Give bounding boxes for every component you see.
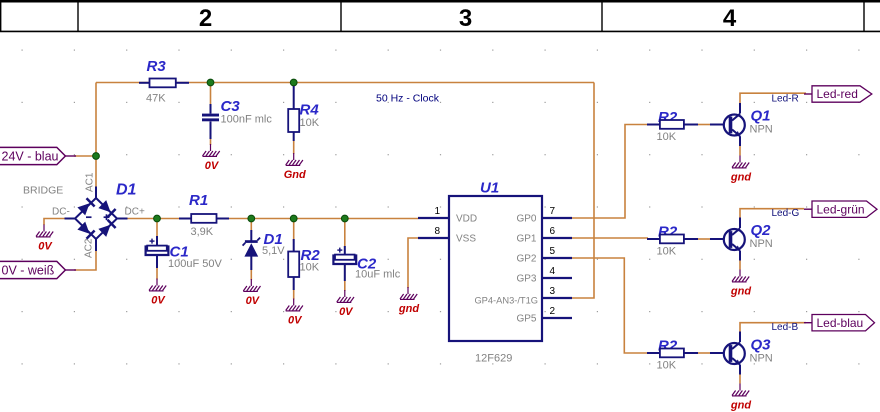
pin number 6 <box>550 226 556 237</box>
resistor R1 <box>179 192 229 223</box>
svg-text:0V: 0V <box>38 241 53 253</box>
ground Gnd at R4 <box>284 153 306 181</box>
connector flag Led-red <box>804 86 872 102</box>
pin name VSS <box>456 234 476 245</box>
svg-text:NPN: NPN <box>750 124 773 136</box>
svg-text:12F629: 12F629 <box>475 353 512 365</box>
ground 0V at C2 <box>337 290 354 318</box>
value NPN of Q2 <box>750 238 773 250</box>
pin number 5 <box>550 246 556 257</box>
value 10K of R2 base Q2 <box>657 246 677 258</box>
wire C3 to ground <box>210 138 212 145</box>
svg-text:2: 2 <box>199 5 212 32</box>
svg-text:GP1: GP1 <box>516 234 536 245</box>
svg-text:Gnd: Gnd <box>284 169 306 181</box>
zener diode D1 <box>243 230 283 270</box>
svg-text:5: 5 <box>550 246 556 257</box>
capacitor C2 <box>333 246 376 281</box>
label BRIDGE <box>23 185 63 197</box>
ground 0V at C3 <box>203 144 220 172</box>
svg-text:DC+: DC+ <box>125 207 145 218</box>
resistor R2 (shunt) <box>288 239 320 290</box>
svg-text:Q1: Q1 <box>751 108 771 125</box>
wire GP2 pin 5 to R2 base resistor of Q3 <box>572 258 648 353</box>
pin number 3 <box>550 286 556 297</box>
svg-text:2: 2 <box>550 306 556 317</box>
junction +V rail at C1 <box>154 215 161 222</box>
svg-text:4: 4 <box>550 266 556 277</box>
pin name GP2 <box>516 254 536 265</box>
svg-text:C3: C3 <box>221 98 241 115</box>
transistor Q1 <box>710 103 771 146</box>
wire R2 to Q3 base <box>698 352 713 354</box>
svg-text:Q2: Q2 <box>751 222 772 239</box>
svg-text:1: 1 <box>434 206 440 217</box>
svg-text:NPN: NPN <box>750 238 773 250</box>
ground gnd at Q3 emitter <box>730 384 751 412</box>
net label Led-G <box>772 208 800 219</box>
svg-text:VSS: VSS <box>456 234 476 245</box>
pin name GP1 <box>516 234 536 245</box>
label 50 Hz - Clock net name <box>376 93 440 105</box>
resistor R2 (base of Q1) <box>647 109 698 129</box>
net label Led-B <box>772 322 799 333</box>
connector flag 24V - blau <box>0 147 76 164</box>
net label Led-R <box>772 93 799 104</box>
junction clock net at R4 <box>290 79 297 86</box>
pin name VDD <box>456 214 477 225</box>
svg-text:R4: R4 <box>300 102 320 119</box>
svg-text:0V: 0V <box>205 160 220 172</box>
svg-text:GP4-AN3-/T1G: GP4-AN3-/T1G <box>474 296 538 306</box>
svg-text:8: 8 <box>434 226 440 237</box>
svg-text:GP0: GP0 <box>516 214 536 225</box>
svg-text:100nF mlc: 100nF mlc <box>221 114 273 126</box>
ground 0V at D1 zener <box>243 279 260 307</box>
ground gnd at Q1 emitter <box>730 156 751 184</box>
pin number 7 <box>550 206 556 217</box>
svg-text:0V: 0V <box>288 315 303 327</box>
svg-text:gnd: gnd <box>398 303 419 315</box>
svg-text:GP3: GP3 <box>516 274 536 285</box>
svg-text:Led-R: Led-R <box>772 93 799 104</box>
wire clock net vertical drop to U1 pin 3 <box>572 83 594 299</box>
wire D1 zener branch from +V rail <box>250 219 252 233</box>
pin name GP3 <box>516 274 536 285</box>
svg-text:3: 3 <box>459 5 472 32</box>
resistor R4 <box>288 86 319 141</box>
svg-text:U1: U1 <box>480 180 499 197</box>
svg-text:NPN: NPN <box>750 353 773 365</box>
pin number 1 <box>434 206 440 217</box>
junction 24V flag on AC1 riser <box>93 153 100 160</box>
svg-text:10K: 10K <box>300 262 320 274</box>
wire R2 to ground <box>293 275 295 300</box>
wire Q1 collector to Led-red flag <box>740 93 806 104</box>
svg-text:7: 7 <box>550 206 556 217</box>
resistor R2 (base of Q3) <box>647 338 698 358</box>
wire 24V flag stub to junction <box>74 155 96 157</box>
wire GP0 pin 7 to R2 base resistor of Q1 <box>572 125 648 219</box>
svg-text:Q3: Q3 <box>751 337 772 354</box>
ground 0V at R2 shunt <box>286 299 303 327</box>
ground gnd at U1 VSS <box>398 287 419 315</box>
wire Q1 emitter to gnd <box>739 146 741 156</box>
svg-text:AC2: AC2 <box>84 238 95 258</box>
pin name DC- <box>52 207 70 218</box>
value 100nF mlc of C3 <box>221 114 273 126</box>
wire Q2 emitter to gnd <box>739 261 741 270</box>
svg-text:3,9K: 3,9K <box>191 226 214 238</box>
svg-text:Led-grün: Led-grün <box>817 202 865 216</box>
wire Q3 emitter to gnd <box>739 375 741 384</box>
svg-text:GP2: GP2 <box>516 254 536 265</box>
svg-text:0V: 0V <box>151 295 166 307</box>
wire C2 branch from +V rail <box>344 219 346 248</box>
pin number 8 <box>434 226 440 237</box>
value 47K of R3 <box>146 93 166 105</box>
svg-text:Led-red: Led-red <box>817 87 858 101</box>
svg-text:D1: D1 <box>116 182 137 199</box>
pin name AC2 <box>84 238 95 258</box>
wire main +V rail from bridge DC+ to U1 pin 1 <box>127 218 418 220</box>
wire bridge AC2 to 0V flag <box>74 250 96 270</box>
ground 0V at C1 <box>149 279 166 307</box>
value NPN of Q3 <box>750 353 773 365</box>
resistor R3 <box>139 58 189 87</box>
value 12F629 of U1 <box>475 353 512 365</box>
transistor Q2 <box>710 218 771 261</box>
svg-text:3: 3 <box>550 286 556 297</box>
value 100uF 50V of C1 <box>168 258 222 270</box>
svg-text:gnd: gnd <box>730 172 751 184</box>
svg-text:24V - blau: 24V - blau <box>2 149 59 163</box>
resistor R2 (base of Q2) <box>647 224 698 244</box>
value 5,1V of D1 zener <box>262 245 285 257</box>
svg-text:gnd: gnd <box>730 400 751 412</box>
wire D1 zener to ground <box>250 257 252 280</box>
svg-text:Led-blau: Led-blau <box>817 316 864 330</box>
svg-text:0V - weiß: 0V - weiß <box>2 263 55 277</box>
svg-text:R1: R1 <box>189 192 208 209</box>
wire R2 to Q2 base <box>698 238 713 240</box>
pin name GP4-AN3-/T1G <box>474 296 538 306</box>
pin name GP0 <box>516 214 536 225</box>
wire R4 branch from clock junction <box>293 83 295 89</box>
svg-text:5,1V: 5,1V <box>262 245 285 257</box>
wire R4 to Gnd <box>293 132 295 154</box>
wire U1 VSS pin 8 to gnd <box>408 238 418 288</box>
connector flag Led-blau <box>804 315 875 331</box>
svg-text:DC-: DC- <box>52 207 70 218</box>
pin number 2 <box>550 306 556 317</box>
svg-text:100uF 50V: 100uF 50V <box>168 258 222 270</box>
svg-text:AC1: AC1 <box>85 172 96 192</box>
capacitor C1 <box>146 236 189 268</box>
svg-text:10K: 10K <box>657 131 677 143</box>
wire Q3 collector to Led-blau flag <box>740 323 806 333</box>
svg-text:0V: 0V <box>246 295 261 307</box>
capacitor C3 <box>202 98 240 139</box>
transistor Q3 <box>710 332 771 375</box>
connector flag 0V - weiss <box>0 261 76 278</box>
value 3,9K of R1 <box>191 226 214 238</box>
wire C2 to ground <box>344 264 346 291</box>
pin name GP5 <box>516 314 536 325</box>
svg-text:4: 4 <box>723 5 737 32</box>
wire C1 branch from +V rail <box>156 219 158 239</box>
wire R2 branch from +V rail <box>293 219 295 242</box>
value NPN of Q1 <box>750 124 773 136</box>
value 10K of R4 <box>300 117 320 129</box>
ground 0V at bridge DC- <box>36 225 53 253</box>
svg-text:10uF mlc: 10uF mlc <box>355 269 401 281</box>
wire 24V rail vertical from clock corner to bridge AC1 <box>95 83 97 188</box>
svg-text:VDD: VDD <box>456 214 477 225</box>
svg-text:BRIDGE: BRIDGE <box>23 185 63 197</box>
bridge rectifier D1 <box>65 182 137 252</box>
svg-text:0V: 0V <box>339 306 354 318</box>
junction +V rail at D1 zener <box>248 215 255 222</box>
wire bridge DC- to ground <box>44 219 65 226</box>
wire C3 branch from clock junction <box>210 83 212 107</box>
value 10K of R2 base Q3 <box>657 360 677 372</box>
junction clock net at C3 <box>207 79 214 86</box>
svg-text:Led-G: Led-G <box>772 208 800 219</box>
svg-text:10K: 10K <box>657 246 677 258</box>
svg-text:10K: 10K <box>300 117 320 129</box>
pin name DC+ <box>125 207 145 218</box>
wire GP1 pin 6 to R2 base resistor of Q2 <box>572 237 648 239</box>
wire C1 to ground <box>156 255 158 280</box>
svg-text:Led-B: Led-B <box>772 322 799 333</box>
wire Q2 collector to Led-gruen flag <box>740 209 804 219</box>
connector flag Led-gr&#252;n <box>804 201 877 217</box>
ground gnd at Q2 emitter <box>730 270 751 298</box>
value 10K of R2 shunt <box>300 262 320 274</box>
IC U1 12F629 <box>418 180 572 342</box>
svg-text:6: 6 <box>550 226 556 237</box>
svg-text:R3: R3 <box>147 58 167 75</box>
wire R2 to Q1 base <box>698 124 713 126</box>
svg-text:50 Hz - Clock: 50 Hz - Clock <box>376 93 440 105</box>
pin name AC1 <box>85 172 96 192</box>
pin number 4 <box>550 266 556 277</box>
wire clock net horizontal from R3 to GP4 column <box>96 82 594 84</box>
svg-text:47K: 47K <box>146 93 166 105</box>
value 10uF mlc of C2 <box>355 269 401 281</box>
svg-text:gnd: gnd <box>730 286 751 298</box>
svg-text:10K: 10K <box>657 360 677 372</box>
junction +V rail at C2 <box>341 215 348 222</box>
junction +V rail at R2 <box>290 215 297 222</box>
value 10K of R2 base Q1 <box>657 131 677 143</box>
svg-text:GP5: GP5 <box>516 314 536 325</box>
